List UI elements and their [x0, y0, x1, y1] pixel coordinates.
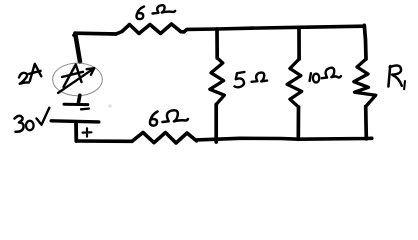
resistor 6ohm bottom zigzag: [132, 133, 197, 144]
ammeter letter A: [62, 65, 83, 88]
wire: bottom rail right segment: [197, 138, 372, 140]
label 10ohm: [310, 73, 311, 81]
resistor 6ohm top zigzag: [116, 24, 184, 34]
plus sign: [83, 128, 92, 136]
wire: top horizontal left segment: [74, 33, 116, 35]
label 30V: [15, 116, 24, 132]
label 6ohm bottom: [150, 112, 158, 126]
resistor R1 zigzag: [354, 59, 376, 107]
ammeter needle arrow: [58, 68, 94, 93]
battery short plate (negative): [64, 103, 88, 106]
label 5ohm: [235, 72, 245, 87]
wire: top horizontal right segment to nodes of 5ohm, 10ohm, R1: [184, 26, 364, 32]
wire: battery positive down to bottom rail: [74, 122, 78, 141]
wire: R1 branch bottom: [364, 107, 368, 139]
wire: left vertical from top-left corner down to ammeter: [75, 34, 80, 62]
label 6ohm top: [137, 7, 144, 20]
wire: bottom rail left segment: [76, 139, 132, 143]
speckle dot: [108, 104, 111, 107]
wire: 5ohm branch top: [215, 29, 219, 58]
wire: R1 branch top with corner nub: [364, 25, 366, 59]
wire: 5ohm branch bottom: [214, 104, 218, 142]
resistor 5ohm zigzag: [210, 58, 225, 104]
wire: 10ohm branch top: [297, 27, 301, 59]
minus sign: [81, 107, 89, 110]
wire: 10ohm branch bottom: [296, 107, 300, 139]
label R1: [388, 65, 401, 86]
ammeter U1 ellipse: [53, 63, 103, 96]
resistor 10ohm zigzag: [287, 59, 302, 107]
label 2A: [19, 73, 29, 84]
wire: stub ammeter to battery: [78, 95, 80, 103]
battery long plate (positive): [51, 121, 99, 122]
